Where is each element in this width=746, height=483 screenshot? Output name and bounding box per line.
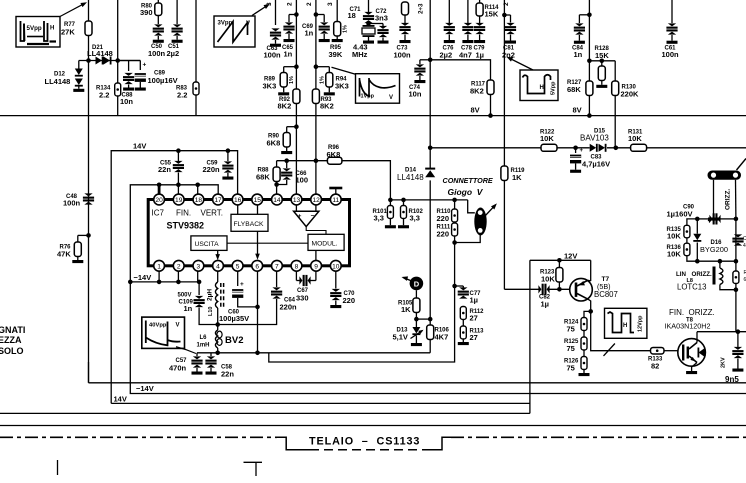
svg-text:BC807: BC807: [594, 290, 618, 299]
resistor R123 10K: [558, 260, 560, 267]
svg-text:BYG200: BYG200: [700, 245, 728, 254]
resistor R101 3,3: [389, 200, 391, 206]
svg-text:8K2: 8K2: [278, 102, 292, 111]
FLYBACK to pin 6 arrow: [257, 231, 259, 257]
pot left terminal to ground: [713, 180, 715, 218]
svg-text:FIN.: FIN.: [176, 209, 191, 218]
svg-text:1: 1: [157, 263, 161, 270]
svg-text:330: 330: [296, 294, 309, 303]
svg-text:LL4148: LL4148: [397, 173, 424, 182]
svg-text:−14V: −14V: [136, 384, 154, 393]
capacitor C71 18: [368, 0, 370, 12]
svg-text:LOTC13: LOTC13: [677, 283, 706, 292]
pin 20: [154, 194, 165, 205]
svg-text:75: 75: [567, 344, 575, 353]
svg-text:4n7: 4n7: [459, 51, 472, 60]
8V rail y115.6: [0, 115, 746, 117]
svg-text:−14V: −14V: [134, 273, 152, 282]
zener D13 5.1V: [415, 319, 417, 327]
node line y261.2: [697, 260, 736, 262]
bottom stubs of next section: [57, 460, 59, 475]
svg-text:11: 11: [332, 197, 339, 204]
USCITA block: [191, 236, 227, 251]
resistor R90 6K8: [294, 124, 299, 129]
svg-text:2KV: 2KV: [721, 357, 727, 368]
node 2-wire divider left: [294, 64, 299, 69]
svg-text:V: V: [246, 21, 250, 27]
svg-text:FLYBACK: FLYBACK: [234, 221, 265, 228]
resistor R113 27: [462, 320, 464, 327]
feedback line y160.7: [276, 167, 278, 185]
pin 9: [311, 260, 322, 271]
svg-text:6K8: 6K8: [327, 150, 341, 159]
potentiometer ORIZZ: [708, 171, 742, 180]
capacitor C77 1u: [455, 285, 464, 287]
signal node line y199.9: [429, 180, 431, 319]
capacitor C48 100n on H column: [88, 61, 90, 383]
svg-text:3: 3: [197, 263, 201, 270]
resistor R122 10K: [541, 144, 557, 151]
svg-text:GNATI: GNATI: [0, 325, 25, 335]
svg-text:4K7: 4K7: [435, 333, 449, 342]
svg-text:LL4148: LL4148: [87, 49, 113, 58]
svg-text:27: 27: [470, 314, 478, 323]
svg-text:100n: 100n: [264, 51, 282, 60]
pin 12: [311, 194, 322, 205]
svg-text:470n: 470n: [169, 364, 187, 373]
svg-text:SOLO: SOLO: [0, 346, 24, 356]
svg-text:2.2: 2.2: [177, 91, 187, 100]
svg-text:+: +: [240, 281, 244, 288]
resistor R77: [85, 21, 92, 36]
pin 6 column: [257, 271, 259, 353]
transistor T7 BC807 PNP: [570, 278, 593, 301]
diode D16 BYG200: [696, 219, 698, 234]
capacitor C76 2u2: [448, 0, 450, 23]
svg-text:L10: L10: [208, 307, 214, 316]
resistor R111 220: [454, 222, 456, 223]
potentiometer D (vertical amplitude): [410, 277, 424, 291]
capacitor C67 330 pins 8-9: [295, 271, 297, 280]
svg-text:4,7µ16V: 4,7µ16V: [582, 160, 610, 169]
waveform inset: 12Vpp H pulse: [605, 308, 647, 338]
pin 13: [291, 194, 302, 205]
chassis dash-dot line and TELAIO label: [0, 436, 277, 438]
capacitor C70 220 on pin 10: [335, 271, 337, 288]
svg-text:12Vpp: 12Vpp: [638, 315, 644, 332]
pin 2: [173, 260, 184, 271]
svg-text:2÷3: 2÷3: [418, 3, 425, 14]
FLYBACK block: [231, 214, 268, 231]
svg-text:12: 12: [312, 197, 320, 204]
resistor R131 10K: [631, 144, 647, 151]
T8 emitter ground: [692, 363, 697, 372]
small resistor right edge: [735, 261, 737, 271]
svg-text:220n: 220n: [203, 165, 221, 174]
resistor R92 8K2: [293, 89, 300, 104]
resistor R96 6K8: [327, 157, 342, 164]
pin 15: [252, 194, 263, 205]
svg-text:IC7: IC7: [152, 209, 165, 218]
svg-text:ORIZZ.: ORIZZ.: [689, 308, 715, 317]
connector jack oval: [468, 200, 475, 213]
svg-text:BAV103: BAV103: [580, 134, 609, 143]
pin 11 ground-bar: [335, 189, 337, 195]
svg-text:75: 75: [567, 364, 575, 373]
svg-text:VERT.: VERT.: [201, 209, 224, 218]
pin 4: [213, 260, 224, 271]
svg-text:3,3: 3,3: [410, 214, 420, 223]
pointer from 40Vpp box: [176, 347, 196, 354]
transistor T8 IKA03N120H2 IGBT: [678, 339, 706, 367]
resistor R134 2.2: [117, 61, 119, 84]
wire T7 collector to R133: [591, 311, 651, 350]
svg-text:3Vpp: 3Vpp: [218, 21, 233, 27]
rail L1 (H return): [89, 382, 746, 384]
svg-text:1Vpp: 1Vpp: [361, 94, 375, 100]
svg-text:14V: 14V: [133, 142, 146, 151]
svg-text:1n: 1n: [305, 29, 314, 38]
14V top rail: [111, 151, 237, 404]
svg-text:100n: 100n: [394, 51, 412, 60]
svg-text:15K: 15K: [485, 10, 499, 19]
svg-text:H: H: [623, 323, 627, 329]
rail L5 full width: [0, 425, 746, 427]
svg-text:220: 220: [343, 296, 356, 305]
svg-text:22n: 22n: [158, 165, 171, 174]
waveform inset: 1Vpp V sawtooth: [356, 74, 400, 104]
svg-text:100n: 100n: [63, 199, 81, 208]
svg-text:2.2: 2.2: [99, 91, 109, 100]
svg-text:68K: 68K: [256, 173, 270, 182]
pin 18: [193, 194, 204, 205]
resistor R133 82: [651, 347, 665, 354]
svg-text:10: 10: [332, 263, 340, 270]
svg-text:USCITA: USCITA: [195, 241, 220, 248]
capacitor C50 100n: [153, 24, 164, 35]
resistor R130 220K: [614, 61, 616, 81]
svg-text:14V: 14V: [114, 395, 127, 404]
svg-text:3K3: 3K3: [263, 82, 277, 91]
capacitor C83 4.7u16V: [573, 146, 578, 151]
svg-text:3: 3: [327, 2, 334, 6]
wire C77 column to lower link: [269, 286, 455, 362]
svg-text:8K2: 8K2: [320, 102, 334, 111]
capacitor C72 3n3 parallel: [369, 23, 384, 25]
connector wiper arrow: [485, 205, 496, 217]
resistor R102 3,3: [403, 200, 405, 206]
capacitor C61 100n: [671, 0, 673, 23]
svg-text:7: 7: [275, 263, 279, 270]
svg-text:2µ2: 2µ2: [440, 51, 453, 60]
svg-text:82: 82: [651, 362, 659, 371]
wire 2:3 bus to R122 line: [428, 146, 433, 151]
signal line y147.8 R122/D15/R131: [430, 147, 541, 149]
svg-text:15K: 15K: [595, 51, 609, 60]
resistor R106 4K7: [429, 319, 431, 325]
svg-text:ORIZZ.: ORIZZ.: [725, 189, 732, 210]
wire R111 node down to C77 node: [454, 243, 456, 287]
capacitor C69 1n: [316, 14, 324, 16]
svg-text:8: 8: [295, 263, 299, 270]
svg-text:47K: 47K: [57, 250, 71, 259]
svg-text:1%: 1%: [320, 76, 326, 84]
svg-text:V: V: [389, 95, 393, 101]
svg-text:FIN.: FIN.: [669, 308, 684, 317]
resistor R80 390 column: [157, 0, 159, 4]
wire 12V down-feed long vertical: [529, 260, 531, 413]
resistor column with capacitor C73 100n: [402, 2, 409, 15]
svg-text:STV9382: STV9382: [167, 221, 205, 231]
resistor R83 2.2 column: [195, 0, 197, 82]
capacitor on right edge column: [735, 219, 737, 261]
svg-text:39K: 39K: [329, 50, 343, 59]
capacitor 9n5 2KV snubber: [737, 332, 739, 347]
rail L4 (12V feed return): [0, 412, 530, 414]
-14V link wire y184.8 to pins 20/19/18/17: [130, 185, 218, 282]
resistor R89 3K3 1%: [280, 73, 287, 88]
svg-text:10K: 10K: [541, 275, 555, 284]
svg-text:6K8: 6K8: [267, 139, 281, 148]
svg-text:LIN: LIN: [676, 271, 686, 278]
svg-text:TELAIO – CS1133: TELAIO – CS1133: [309, 436, 420, 448]
svg-text:−: −: [311, 213, 315, 220]
capacitor C59 220n: [227, 151, 229, 161]
svg-text:+: +: [708, 219, 712, 225]
svg-text:220: 220: [437, 214, 450, 223]
pin 14 node from R88/C66: [276, 185, 278, 195]
svg-text:220K: 220K: [621, 90, 640, 99]
resistor R105 1K: [415, 290, 417, 298]
wire R117 top link: [430, 60, 490, 80]
svg-text:16: 16: [234, 197, 242, 204]
svg-text:390: 390: [140, 8, 153, 17]
svg-text:BV2: BV2: [225, 335, 243, 346]
svg-text:5: 5: [236, 263, 240, 270]
svg-text:2: 2: [177, 263, 181, 270]
diode D12 LL4148 to ground: [78, 61, 80, 69]
svg-text:10K: 10K: [540, 134, 554, 143]
pin 6: [252, 260, 263, 271]
svg-text:2µH: 2µH: [207, 289, 214, 301]
svg-text:H: H: [50, 26, 54, 32]
svg-text:10n: 10n: [120, 97, 133, 106]
svg-text:9: 9: [314, 263, 318, 270]
svg-text:18: 18: [195, 197, 203, 204]
svg-text:3K3: 3K3: [335, 82, 349, 91]
pointer arrow from right 5Vpp box: [508, 58, 533, 71]
svg-text:1mH: 1mH: [197, 343, 210, 349]
svg-text:+: +: [143, 62, 147, 69]
svg-text:10n: 10n: [409, 90, 422, 99]
svg-text:MHz: MHz: [352, 50, 368, 59]
svg-text:22n: 22n: [221, 370, 234, 379]
svg-text:220n: 220n: [280, 303, 298, 312]
inductor L6 1mH BV2 bead: [215, 330, 217, 348]
svg-text:100µ35V: 100µ35V: [219, 314, 249, 323]
svg-text:L6: L6: [200, 335, 208, 341]
svg-text:8V: 8V: [573, 106, 582, 115]
pin 11: [330, 194, 341, 205]
node R127/R128/R130 and resistor R128 15K: [589, 60, 615, 62]
pointer arrow from 3Vpp box to wire 3: [252, 5, 268, 16]
wire H drive vertical x88.5: [88, 0, 90, 61]
resistor R93 8K2: [312, 89, 319, 104]
svg-text:100n: 100n: [148, 49, 166, 58]
svg-text:D: D: [414, 280, 420, 289]
resistor R88 68K: [273, 167, 280, 182]
svg-text:100n: 100n: [662, 50, 680, 59]
USCITA to pin 4 arrow: [217, 250, 219, 257]
svg-text:18: 18: [348, 11, 356, 20]
capacitor C89 100u16V electrolytic: [129, 60, 141, 62]
capacitor C66 100: [286, 161, 288, 168]
resistor R119 1K: [501, 166, 508, 181]
pin 19: [173, 194, 184, 205]
waveform inset: 40Vpp V sawtooth: [142, 317, 185, 348]
svg-text:17: 17: [214, 197, 222, 204]
svg-text:IKA03N120H2: IKA03N120H2: [665, 322, 711, 331]
svg-text:6: 6: [255, 263, 259, 270]
IC U-IC7 STV9382 outline: [148, 200, 349, 266]
svg-text:13: 13: [293, 197, 301, 204]
wire vertical x117.7 top: [117, 0, 119, 61]
svg-text:MODUL.: MODUL.: [312, 241, 338, 248]
crystal 4.43 MHz: [368, 23, 370, 25]
svg-text:3: 3: [266, 2, 273, 6]
svg-text:68K: 68K: [567, 85, 581, 94]
svg-text:1n: 1n: [284, 50, 293, 59]
pin 9 stub to MODUL: [315, 250, 317, 260]
svg-text:10K: 10K: [667, 232, 681, 241]
svg-text:1n: 1n: [184, 304, 193, 313]
pin 3: [193, 260, 204, 271]
svg-text:5Vpp: 5Vpp: [27, 25, 42, 32]
capacitor C55 22n: [177, 151, 179, 161]
resistors R135 R136 10K: [687, 219, 697, 225]
svg-text:100µ16V: 100µ16V: [148, 76, 178, 85]
svg-text:3n3: 3n3: [375, 14, 388, 23]
R96 link down to R101 node: [342, 161, 391, 200]
svg-text:H: H: [540, 85, 544, 91]
svg-text:V: V: [176, 323, 180, 329]
inductor L10 2uH on pin 4: [217, 271, 219, 282]
svg-text:12V: 12V: [564, 252, 577, 261]
capacitor C88 10n: [118, 60, 129, 62]
svg-text:CONNETTORE: CONNETTORE: [443, 176, 493, 185]
resistor R114 15K with capacitor C79 1u: [479, 0, 481, 3]
12V rail: [530, 259, 591, 261]
svg-text:27K: 27K: [61, 28, 75, 37]
svg-text:1%: 1%: [289, 76, 295, 84]
svg-text:1µ: 1µ: [541, 300, 550, 309]
pin 8: [291, 260, 302, 271]
svg-text:EZZA: EZZA: [0, 335, 22, 345]
svg-text:ORIZZ.: ORIZZ.: [692, 271, 713, 278]
svg-text:LL4148: LL4148: [45, 77, 71, 86]
wire y352.8 C57/C58 node to R106: [197, 352, 430, 354]
waveform inset: 5Vpp H sync pulse: [16, 17, 60, 48]
svg-text:1K: 1K: [512, 173, 522, 182]
svg-text:100: 100: [296, 176, 309, 185]
node 2-wire divider right: [314, 64, 319, 69]
USCITA-MODUL link: [227, 242, 308, 244]
svg-text:220: 220: [437, 229, 450, 238]
capacitor C58 22n: [210, 353, 212, 356]
diode D21 LL4148 (series pair): [96, 57, 104, 65]
svg-text:1µ160V: 1µ160V: [667, 210, 693, 219]
svg-text:500V: 500V: [178, 293, 192, 299]
svg-text:+: +: [298, 213, 302, 220]
svg-text:+: +: [580, 148, 584, 154]
-14V wire pins 1/2/3: [130, 281, 199, 283]
pin 1: [154, 260, 165, 271]
waveform inset: 5Vpp H (right): [520, 70, 558, 101]
pin 7: [272, 260, 283, 271]
pointer line to 1Vpp box: [332, 67, 356, 74]
capacitor C64 220n on pin 7: [276, 271, 278, 287]
svg-text:1µ: 1µ: [470, 296, 479, 305]
capacitor C109 500V 1n: [198, 282, 200, 295]
pointer arrow from 5Vpp box to H wire: [60, 3, 85, 16]
pin 16: [232, 194, 243, 205]
resistor R110 220: [454, 200, 456, 209]
resistor R76 47K: [86, 233, 91, 238]
pin 14: [272, 194, 283, 205]
svg-text:20: 20: [155, 197, 163, 204]
capacitor C51 2u2: [176, 0, 178, 24]
T8 collector node line: [696, 332, 698, 343]
capacitor C74 10n: [420, 59, 430, 61]
svg-text:8K2: 8K2: [470, 87, 484, 96]
rail L2 -14V: [130, 282, 746, 394]
svg-text:2: 2: [306, 2, 313, 6]
svg-text:27: 27: [470, 333, 478, 342]
svg-text:2: 2: [287, 2, 294, 6]
svg-text:5,1V: 5,1V: [393, 333, 408, 342]
resistor R117 8K2: [487, 80, 494, 95]
svg-text:10K: 10K: [628, 134, 642, 143]
svg-text:3,3: 3,3: [374, 214, 384, 223]
svg-text:1%: 1%: [343, 25, 349, 33]
pin 17: [213, 194, 224, 205]
rail L3 14V: [111, 402, 530, 404]
capacitor C82 1u: [503, 181, 505, 289]
diode D15 BAV103: [590, 144, 598, 152]
svg-text:4: 4: [216, 263, 220, 270]
MODUL block: [308, 234, 344, 250]
op-amp comparator: [294, 211, 319, 226]
pin 5: [232, 260, 243, 271]
resistor R94 3K3 1%: [326, 73, 333, 88]
capacitor C78 4n7: [467, 0, 469, 23]
svg-text:75: 75: [567, 325, 575, 334]
svg-text:14: 14: [273, 197, 281, 204]
capacitor C57 470n: [196, 353, 198, 356]
resistor R127 68K: [586, 81, 593, 96]
waveform inset: 3Vpp V sawtooth: [214, 16, 255, 47]
svg-text:2µ2: 2µ2: [167, 49, 180, 58]
svg-text:19: 19: [175, 197, 183, 204]
svg-text:1K: 1K: [401, 305, 411, 314]
capacitor C60 100u35V on pin 5: [237, 271, 239, 286]
svg-text:15: 15: [254, 197, 262, 204]
svg-text:1n: 1n: [574, 50, 583, 59]
pointer from 12Vpp box: [604, 344, 615, 356]
capacitor C84 1n: [588, 0, 590, 116]
capacitor C65 1n: [289, 14, 296, 16]
node wire y60.5: [79, 60, 141, 62]
